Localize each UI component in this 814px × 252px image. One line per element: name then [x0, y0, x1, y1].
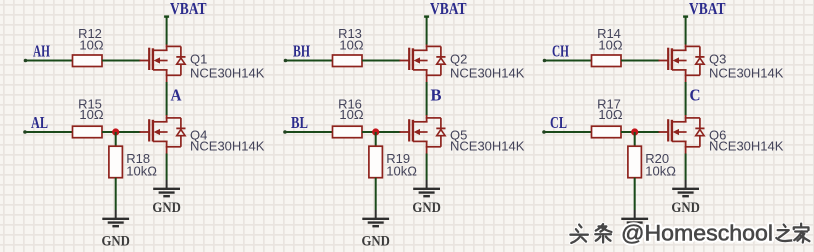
ground under Q4 [153, 180, 180, 196]
wire BL input [285, 131, 333, 133]
resistor R13 [333, 55, 363, 67]
svg-text:10kΩ: 10kΩ [645, 164, 676, 179]
svg-text:10kΩ: 10kΩ [126, 164, 157, 179]
svg-text:10kΩ: 10kΩ [386, 164, 417, 179]
svg-text:10Ω: 10Ω [598, 107, 622, 122]
wire VBAT to drain [426, 17, 428, 45]
wire R18 to ground [115, 178, 117, 210]
wire CH input [545, 60, 592, 62]
wire R14 to Q3 gate [621, 60, 660, 62]
svg-text:NCE30H14K: NCE30H14K [450, 65, 525, 80]
svg-text:10Ω: 10Ω [79, 38, 103, 53]
resistor R15 [73, 126, 103, 138]
svg-text:BL: BL [291, 113, 308, 132]
resistor R20 [628, 146, 642, 178]
svg-text:GND: GND [412, 200, 441, 216]
svg-text:NCE30H14K: NCE30H14K [190, 138, 265, 153]
wire Q6 source to ground [685, 154, 687, 181]
resistor R19 [369, 146, 383, 178]
svg-text:A: A [171, 85, 183, 104]
wire junction to R20 [634, 132, 636, 146]
wire R13 to Q2 gate [362, 60, 401, 62]
svg-text:CH: CH [552, 42, 569, 61]
svg-text:AH: AH [33, 42, 50, 61]
wire R17 to Q6 gate [621, 131, 660, 133]
transistor Q5 [400, 115, 446, 154]
ground under R19 [362, 210, 389, 226]
svg-text:NCE30H14K: NCE30H14K [709, 138, 784, 153]
wire node A [166, 82, 168, 116]
svg-text:VBAT: VBAT [689, 0, 726, 18]
resistor R18 [109, 146, 123, 178]
wire node C [685, 82, 687, 116]
svg-text:10Ω: 10Ω [339, 38, 363, 53]
wire BH input [286, 60, 333, 62]
wire VBAT to drain [685, 17, 687, 45]
svg-text:AL: AL [31, 113, 48, 132]
svg-text:C: C [690, 85, 701, 104]
wire Q4 source to ground [166, 154, 168, 181]
svg-text:GND: GND [152, 200, 181, 216]
wire R20 to ground [634, 178, 636, 210]
watermark 头条@Homeschool之家 [570, 221, 809, 246]
transistor Q1 [140, 44, 186, 83]
resistor R14 [592, 55, 622, 67]
transistor Q3 [659, 44, 705, 83]
junction at R19 tap [372, 128, 379, 135]
svg-text:10Ω: 10Ω [79, 107, 103, 122]
ground under R18 [102, 210, 129, 226]
wire VBAT to drain [166, 17, 168, 45]
ground under R20 [621, 210, 648, 226]
ground under Q6 [672, 180, 699, 196]
svg-text:@Homeschool: @Homeschool [621, 221, 773, 246]
wire junction to R18 [115, 132, 117, 146]
svg-text:NCE30H14K: NCE30H14K [709, 65, 784, 80]
wire node B [426, 82, 428, 116]
transistor Q6 [659, 115, 705, 154]
ground under Q5 [413, 180, 440, 196]
wire R16 to Q5 gate [362, 131, 401, 133]
svg-text:CL: CL [550, 113, 567, 132]
wire R12 to Q1 gate [102, 60, 141, 62]
wire junction to R19 [375, 132, 377, 146]
svg-text:10Ω: 10Ω [598, 38, 622, 53]
wire R19 to ground [375, 178, 377, 210]
svg-text:BH: BH [293, 42, 310, 61]
resistor R12 [73, 55, 103, 67]
wire AL input [25, 131, 73, 133]
svg-text:10Ω: 10Ω [339, 107, 363, 122]
svg-text:VBAT: VBAT [430, 0, 467, 18]
svg-text:GND: GND [101, 233, 130, 249]
wire Q5 source to ground [426, 154, 428, 181]
svg-text:GND: GND [671, 200, 700, 216]
wire CL input [544, 131, 592, 133]
resistor R16 [333, 126, 363, 138]
resistor R17 [592, 126, 622, 138]
junction at R20 tap [631, 128, 638, 135]
junction at R18 tap [112, 128, 119, 135]
wire R15 to Q4 gate [102, 131, 141, 133]
transistor Q2 [400, 44, 446, 83]
svg-text:NCE30H14K: NCE30H14K [450, 138, 525, 153]
transistor Q4 [140, 115, 186, 154]
svg-text:NCE30H14K: NCE30H14K [190, 65, 265, 80]
svg-text:VBAT: VBAT [170, 0, 207, 18]
svg-text:B: B [431, 85, 442, 104]
svg-text:GND: GND [361, 233, 390, 249]
wire AH input [26, 60, 73, 62]
